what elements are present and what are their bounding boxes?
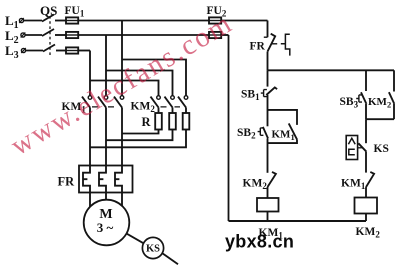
switch QS blade pole2 — [42, 29, 54, 36]
contactor KM1 main pole2 — [104, 96, 108, 100]
node L1 terminal — [19, 18, 23, 22]
svg-text:SB2: SB2 — [237, 127, 256, 141]
wire KM1 coil to bottom rail — [267, 212, 269, 222]
wire SB2 down through rejoin to KM2 interlock — [267, 138, 269, 172]
wire QS to FU1 row2 — [55, 34, 66, 36]
wire R2 to line2 — [106, 130, 173, 141]
wire bottom rail — [229, 220, 367, 222]
wire branch to KM2 pole1 — [90, 81, 159, 96]
wire L2 drop to KM1 pole2 — [105, 35, 107, 96]
wire KM2 pole2 to R2 — [172, 108, 174, 114]
switch QS blade pole1 — [42, 15, 54, 22]
svg-text:QS: QS — [40, 3, 57, 18]
wire KM1 pole2 down to FR — [105, 108, 107, 166]
wire row1 FU2 to control corner — [221, 20, 267, 22]
wire SB1 to junction — [267, 95, 269, 126]
pushbutton SB1 (NC stop) — [266, 87, 277, 95]
FR heater element pole1 — [83, 166, 90, 193]
svg-text:SB3: SB3 — [340, 96, 359, 110]
svg-text:KM2: KM2 — [243, 178, 268, 192]
wire to KM1 coil — [267, 187, 269, 198]
node L2 terminal — [21, 33, 25, 37]
control: wire FU2 down to FR contact — [267, 21, 269, 38]
svg-text:FU1: FU1 — [65, 5, 85, 19]
svg-text:3 ~: 3 ~ — [97, 220, 114, 235]
svg-text:FR: FR — [250, 41, 266, 53]
switch QS linkage dashed — [49, 16, 51, 56]
wire R3 to line1 — [90, 130, 186, 148]
node L3 terminal — [21, 48, 25, 52]
svg-text:KM1: KM1 — [272, 129, 295, 143]
wire QS to FU1 row3 — [56, 50, 66, 52]
contact KM2 interlock (NC) — [268, 172, 276, 187]
FR heater element pole2 — [99, 166, 106, 193]
fuse FU1 pole1 — [66, 17, 78, 23]
fuse FU2 pole1 — [209, 17, 221, 23]
svg-text:SB1: SB1 — [241, 89, 260, 103]
contact KM1 interlock (NC) — [366, 172, 374, 187]
thermal relay FR heater box — [79, 166, 133, 193]
wire left control drop — [228, 35, 230, 221]
wire rail corner to KM2 aux — [393, 70, 395, 91]
wire KM2 pole3 to R3 — [185, 108, 187, 114]
resistor R pole3 — [183, 113, 190, 130]
speed sensor KS circle — [142, 237, 163, 258]
svg-text:KS: KS — [146, 244, 160, 255]
wire L1 to QS — [24, 20, 42, 22]
svg-text:R: R — [142, 115, 152, 129]
contactor KM2 main pole1 — [157, 96, 161, 100]
fuse FU1 pole2 — [66, 32, 78, 38]
wire KM1 aux to rejoin — [268, 139, 298, 143]
contactor KM2 main pole3 — [184, 96, 188, 100]
KM2 linkage dashes — [161, 106, 181, 108]
wire row2 FU1 to FU2 — [78, 34, 209, 36]
contact KS (NO) — [358, 143, 366, 151]
svg-text:FR: FR — [58, 175, 76, 189]
contact KM1 aux (NO self-hold) — [289, 123, 297, 139]
svg-text:KM1: KM1 — [341, 178, 366, 192]
FR heater element pole3 — [115, 166, 122, 193]
contactor KM1 main pole1 — [88, 96, 92, 100]
svg-text:ybx8.cn: ybx8.cn — [225, 232, 294, 252]
wire L1 drop to KM1 pole3 — [121, 21, 123, 96]
switch QS blade pole3 — [43, 45, 55, 52]
motor M circle — [84, 200, 130, 246]
wire row1 FU1 to FU2 — [78, 20, 209, 22]
wire rejoin to KS — [365, 119, 367, 143]
KM1 linkage dashes — [92, 106, 114, 108]
wire KM1 pole3 down to FR — [121, 108, 123, 166]
contactor KM1 main pole3 — [120, 96, 124, 100]
wire to KM2 coil — [365, 187, 367, 197]
wire FR contact to top rail — [267, 52, 269, 71]
wire KS to KM1 interlock — [365, 152, 367, 173]
svg-text:KM2: KM2 — [356, 226, 381, 240]
wire row3 FU1 to corner — [78, 50, 90, 52]
resistor R pole1 — [155, 113, 162, 130]
wire L3 drop to KM1 pole1 — [89, 51, 91, 96]
svg-text:KS: KS — [374, 143, 389, 155]
wire rail to SB1 — [267, 70, 269, 86]
wire rejoin right branch — [366, 118, 394, 120]
svg-text:KM2: KM2 — [131, 101, 156, 115]
wire branch to KM2 pole3 — [122, 60, 186, 96]
FR thermal symbol — [281, 34, 290, 55]
pushbutton SB3 (NO start) — [361, 92, 366, 104]
wire QS to FU1 row1 — [55, 20, 66, 22]
wire KM2 pole1 to R1 — [158, 108, 160, 114]
wire L2 to QS — [25, 34, 42, 36]
wire rail to SB3 — [365, 70, 367, 91]
coil KM1 — [257, 198, 279, 212]
wire row2 FU2 to left control corner — [221, 34, 228, 36]
resistor R pole2 — [169, 113, 176, 130]
svg-text:KM2: KM2 — [368, 96, 391, 110]
wire SB3 to rejoin — [365, 104, 367, 119]
relay contact FR (NC) — [268, 34, 276, 52]
contact KM2 aux (NO self-hold) — [389, 92, 394, 104]
wire R1 to line3 — [122, 130, 159, 134]
wire KM2 aux to rejoin — [393, 104, 395, 119]
speed relay KS actuator box — [346, 136, 357, 160]
motor shaft line — [126, 233, 178, 264]
wire top rail — [268, 69, 395, 71]
wire KM1 pole1 down to FR — [89, 108, 91, 166]
wire KM2 coil to bottom rail — [365, 214, 367, 222]
pushbutton SB2 (NO start) — [263, 127, 268, 138]
wire branch to KM2 pole2 — [106, 71, 173, 96]
contactor KM2 main pole2 — [171, 96, 175, 100]
wire junction to KM1 aux — [268, 110, 298, 125]
coil KM2 — [355, 198, 378, 214]
fuse FU1 pole3 — [66, 47, 78, 53]
wire FR to motor — [90, 193, 122, 207]
fuse FU2 pole2 — [209, 32, 221, 38]
wire L3 to QS — [26, 50, 43, 52]
